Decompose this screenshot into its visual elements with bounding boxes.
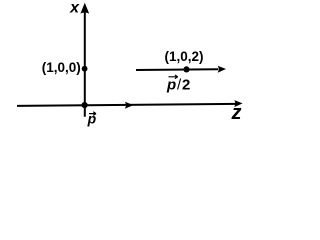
svg-text:z: z xyxy=(231,102,242,124)
node (1,0,2) dot on vector xyxy=(183,66,189,72)
svg-text:x: x xyxy=(69,0,80,16)
z axis end arrowhead xyxy=(234,100,242,107)
dipole p/2 vector (horizontal arrow) xyxy=(136,68,218,71)
arrow over p (origin) xyxy=(89,112,96,116)
node (1,0,0) dot on x axis xyxy=(82,66,88,72)
x axis arrowhead xyxy=(80,3,89,14)
x axis (vertical line) xyxy=(84,10,86,117)
z axis (horizontal line) xyxy=(17,104,236,106)
z axis mid arrowhead xyxy=(125,102,134,109)
origin dot (dipole p location) xyxy=(82,102,88,108)
arrow over p (p/2 label) xyxy=(169,75,178,79)
svg-text:(1,0,2): (1,0,2) xyxy=(164,49,203,64)
svg-text:(1,0,0): (1,0,0) xyxy=(42,60,81,75)
svg-text:p/2: p/2 xyxy=(166,76,191,93)
p/2 vector arrowhead xyxy=(218,66,226,73)
